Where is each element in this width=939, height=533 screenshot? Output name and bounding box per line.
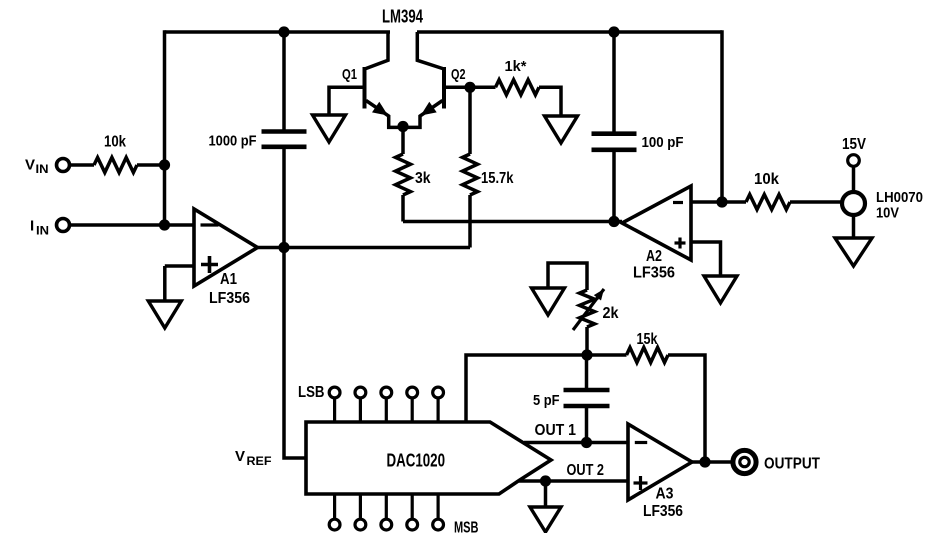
wire Q2 base to 1k — [470, 86, 496, 90]
node rail/100pF junction — [608, 26, 619, 37]
resistor R 3k — [396, 154, 431, 195]
label V_REF — [235, 448, 272, 468]
svg-text:A1: A1 — [220, 271, 237, 288]
arrow Q2 emitter NPN — [421, 102, 437, 116]
svg-text:LM394: LM394 — [382, 7, 423, 27]
wire 2k top to ground — [548, 263, 587, 290]
node OUT2 junction — [540, 475, 551, 486]
node common emitters — [397, 121, 408, 132]
svg-text:10V: 10V — [876, 205, 899, 222]
svg-text:V: V — [25, 157, 35, 174]
node A1 output junction — [278, 242, 289, 253]
svg-text:5 pF: 5 pF — [533, 392, 560, 409]
wire A1 output line — [258, 246, 471, 250]
svg-text:OUT 2: OUT 2 — [567, 462, 605, 479]
resistor R 1k* — [496, 58, 540, 95]
wire 1k to ground — [539, 87, 561, 116]
ground below LH0070 — [835, 238, 872, 266]
wire 100pF to A2 output line — [612, 152, 616, 222]
svg-text:IN: IN — [36, 226, 49, 238]
label Q1 — [342, 66, 357, 83]
wire feedback node to 5pF — [585, 355, 589, 392]
wire Q1 collector — [366, 32, 388, 69]
pin LSB-side bit 5 (top) — [433, 387, 444, 422]
svg-text:1k*: 1k* — [505, 58, 527, 75]
wire 15.7k to A1 output line — [468, 195, 472, 248]
terminal 15V supply — [848, 155, 860, 167]
wire A2 inverting input — [691, 200, 746, 204]
transistor Q2 bar — [442, 67, 446, 109]
wire 1000pF to A1 output — [282, 149, 286, 248]
op-amp A2 LF356 — [622, 186, 691, 282]
label LM394 — [382, 7, 423, 27]
svg-text:LF356: LF356 — [633, 265, 675, 282]
ground above 2k trimmer — [532, 288, 565, 315]
svg-text:I: I — [30, 218, 34, 235]
transistor Q1 bar — [363, 67, 367, 109]
svg-text:2k: 2k — [603, 305, 619, 322]
DAC U DAC1020 — [306, 422, 551, 494]
wire top rail left segment — [165, 30, 391, 34]
pin MSB-side bit 1 (bottom) — [329, 494, 340, 530]
wire 15k to A3 output — [668, 355, 705, 462]
wire LH0070 to ground — [852, 215, 856, 238]
wire OUT 2 line — [519, 479, 628, 483]
node A3 output junction — [699, 456, 710, 467]
wire OUT2 to ground — [544, 481, 548, 507]
wire Q2 collector — [417, 32, 442, 69]
ground at A2 non-inverting input — [704, 276, 737, 303]
svg-text:V: V — [235, 448, 245, 465]
trimmer R 2k — [573, 289, 619, 330]
arrow Q1 emitter NPN — [372, 102, 388, 116]
pin MSB-side bit 3 (bottom) — [381, 494, 392, 530]
svg-text:1000 pF: 1000 pF — [209, 133, 257, 150]
op-amp A1 LF356 — [194, 209, 258, 307]
svg-text:LF356: LF356 — [643, 503, 683, 520]
wire 2k to feedback node — [585, 327, 589, 355]
wire V_IN to 10k — [70, 163, 95, 167]
pin LSB-side bit 2 (top) — [355, 387, 366, 422]
svg-text:OUTPUT: OUTPUT — [764, 456, 820, 473]
wire 3k to A2 output line — [401, 195, 405, 222]
node rail/1000pF junction — [278, 26, 289, 37]
label LSB — [298, 384, 325, 401]
terminal I_IN — [57, 219, 70, 232]
node I_IN junction — [159, 219, 170, 230]
svg-text:15.7k: 15.7k — [481, 170, 514, 187]
node Q2 base junction — [464, 82, 475, 93]
capacitor C 100 pF — [592, 134, 684, 151]
ground at OUT 2 — [530, 507, 561, 532]
pin LSB-side bit 3 (top) — [381, 387, 392, 422]
svg-text:15V: 15V — [842, 136, 866, 153]
svg-text:10k: 10k — [754, 171, 779, 188]
label OUT 1 — [535, 422, 577, 439]
svg-text:REF: REF — [247, 456, 272, 468]
label V_IN — [25, 157, 49, 177]
capacitor C 5 pF — [533, 390, 610, 409]
wire A1 non-inverting to ground — [165, 266, 194, 301]
wire 5pF to OUT1 — [585, 408, 589, 443]
wire 3k to A2 output — [403, 220, 622, 224]
op-amp A3 LF356 — [628, 424, 692, 520]
resistor R 10k input — [94, 134, 137, 173]
wire node to 15k — [587, 353, 627, 357]
wire emitters to 3k — [401, 127, 405, 154]
svg-text:10k: 10k — [104, 134, 126, 151]
label I_IN — [30, 218, 49, 238]
terminal V_IN — [57, 159, 70, 172]
node A2 inverting junction — [716, 196, 727, 207]
wire DAC Rfb to feedback node — [466, 355, 587, 422]
node OUT1 junction — [581, 437, 592, 448]
pin MSB-side bit 2 (bottom) — [355, 494, 366, 530]
ground after 1k* — [545, 116, 578, 143]
wire top rail right segment — [417, 30, 722, 34]
svg-text:OUT 1: OUT 1 — [535, 422, 577, 439]
svg-text:IN: IN — [36, 164, 49, 176]
svg-text:100 pF: 100 pF — [642, 134, 684, 151]
label 15V — [842, 136, 866, 153]
pin MSB-side bit 5 (bottom) — [433, 494, 444, 530]
resistor R 15.7k — [463, 154, 514, 195]
capacitor C 1000 pF — [209, 132, 307, 150]
wire A3 output — [692, 460, 732, 464]
svg-text:LSB: LSB — [298, 384, 325, 401]
ground at A1 non-inverting input — [148, 301, 181, 328]
svg-text:LF356: LF356 — [209, 290, 250, 307]
wire LH0070 to 15V terminal — [852, 166, 856, 192]
wire Q1 emitter — [366, 101, 403, 128]
wire Q2 emitter — [403, 101, 443, 128]
svg-text:A3: A3 — [656, 486, 674, 503]
svg-text:3k: 3k — [415, 170, 431, 187]
pin MSB-side bit 4 (bottom) — [407, 494, 418, 530]
wire OUT 1 line — [524, 441, 628, 445]
svg-text:15k: 15k — [637, 331, 658, 348]
voltage reference U LH0070 — [842, 189, 923, 222]
node feedback summing junction — [581, 349, 592, 360]
wire rail to 1000pF — [282, 32, 286, 130]
wire rail to 100pF — [612, 32, 616, 132]
wire Q2 base to 15.7k — [468, 87, 472, 154]
wire right vertical rail down to A2 minus node — [720, 30, 724, 202]
wire A2 non-inverting to ground — [691, 242, 721, 276]
wire 10k to node — [137, 163, 165, 167]
wire A1 output to V_REF — [284, 248, 306, 459]
svg-text:Q1: Q1 — [342, 66, 357, 83]
label OUTPUT — [764, 456, 820, 473]
node 100pF/A2 output junction — [608, 216, 619, 227]
svg-text:MSB: MSB — [454, 520, 479, 533]
wire Q1 base to ground — [329, 87, 365, 115]
svg-text:DAC1020: DAC1020 — [387, 451, 446, 471]
wire I_IN to A1 inverting input — [70, 223, 195, 227]
pin LSB-side bit 1 (top) — [329, 387, 340, 422]
label Q2 — [451, 66, 466, 83]
resistor R 15k — [627, 331, 669, 363]
wire left vertical from rail to I_IN node — [163, 30, 167, 225]
node V_IN/10k junction — [159, 159, 170, 170]
svg-text:Q2: Q2 — [451, 66, 466, 83]
ground at Q1 base — [313, 115, 346, 142]
terminal OUTPUT — [733, 450, 756, 473]
resistor R 10k reference — [746, 171, 790, 210]
svg-text:LH0070: LH0070 — [876, 189, 923, 206]
label MSB — [454, 520, 479, 533]
wire 10k to LH0070 — [790, 200, 843, 204]
svg-text:A2: A2 — [646, 248, 662, 265]
label OUT 2 — [567, 462, 605, 479]
pin LSB-side bit 4 (top) — [407, 387, 418, 422]
wire Q2 base to node — [444, 86, 470, 90]
